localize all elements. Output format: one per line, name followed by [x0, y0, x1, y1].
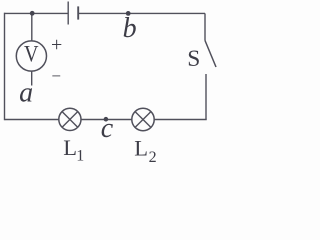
lamp L1 cross — [62, 112, 78, 128]
wire: voltmeter top lead — [31, 13, 33, 41]
node c dot — [104, 117, 109, 122]
junction dot (voltmeter tap) — [30, 11, 35, 16]
lamp L1 circle — [59, 108, 81, 130]
svg-text:−: − — [51, 67, 61, 86]
wire: top-left segment to battery — [5, 12, 68, 14]
wire: L1 to bottom-left corner — [5, 119, 59, 121]
battery long plate (+) — [67, 2, 69, 25]
voltmeter U1 circle — [16, 41, 46, 71]
svg-text:V: V — [24, 41, 39, 66]
svg-text:L: L — [63, 135, 77, 160]
switch S blade — [205, 41, 216, 68]
svg-text:S: S — [187, 46, 200, 72]
svg-text:c: c — [101, 113, 114, 144]
svg-text:b: b — [123, 13, 137, 44]
node b dot — [126, 11, 131, 16]
wire: right side upper (to switch) — [204, 13, 206, 40]
wire: voltmeter bottom stub to terminal a — [31, 71, 33, 86]
lamp L2 cross — [135, 112, 151, 128]
battery short plate (-) — [77, 6, 79, 19]
wire: left side vertical — [4, 13, 6, 121]
svg-text:+: + — [51, 34, 62, 56]
svg-text:L: L — [134, 136, 148, 161]
svg-text:2: 2 — [149, 149, 157, 165]
lamp L2 circle — [132, 108, 154, 130]
wire: bottom right corner to lamp L2 — [154, 119, 207, 121]
svg-text:1: 1 — [76, 148, 84, 165]
wire: battery to top-right corner — [79, 12, 205, 14]
wire: between L2 and L1 (through node c) — [81, 119, 132, 121]
svg-text:a: a — [19, 78, 33, 109]
wire: right side lower (switch to corner) — [205, 74, 207, 120]
